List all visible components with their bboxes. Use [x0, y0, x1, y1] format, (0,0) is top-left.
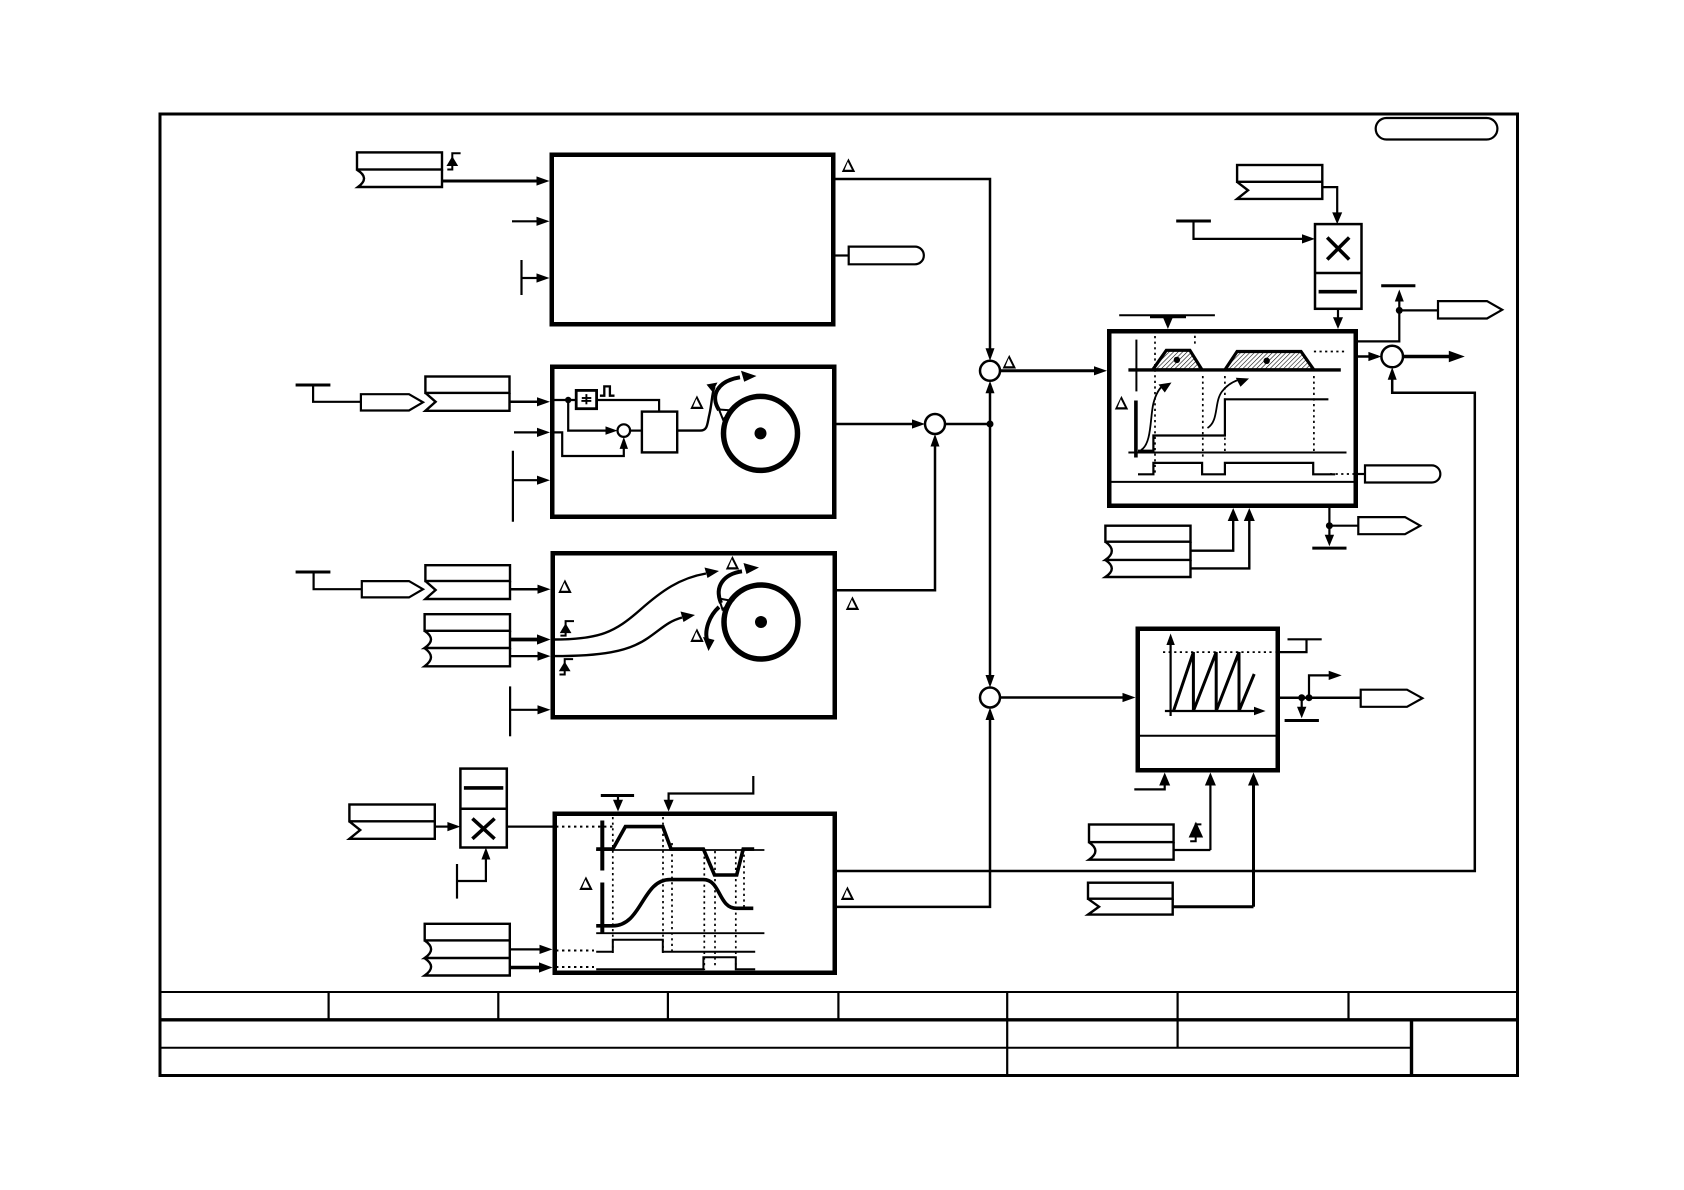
block2 wire invert-to-ramp	[596, 400, 659, 412]
wire banner B3 to block3 input 1	[510, 588, 539, 591]
block3 S-curve 1	[554, 574, 706, 640]
block2 delta label	[690, 395, 703, 409]
sawtooth x-axis	[1165, 710, 1257, 712]
rising-edge symbol S4	[1190, 824, 1201, 841]
block1 input 3 T-stub	[520, 260, 522, 295]
title block row line top	[160, 991, 1517, 993]
block3 output wire to summing node B	[837, 446, 935, 590]
wire node to output flag F2	[1329, 525, 1358, 527]
block2 input1 internal wire	[555, 399, 577, 401]
block2 output wire to summing node B	[837, 423, 914, 426]
block2 pulse symbol	[600, 386, 615, 395]
blockR1 staircase	[1138, 399, 1328, 450]
block4 top input 2 wire	[669, 776, 754, 801]
summer D output arrow	[1403, 355, 1450, 359]
wire banner B5 to multiplier	[435, 825, 449, 827]
connector banner B9	[1088, 883, 1173, 915]
T-terminal T5 (block4 top input 1)	[601, 794, 634, 797]
T-terminal T1 (block2 input 1 source)	[296, 384, 331, 387]
function block 1	[552, 155, 834, 325]
block1 output wire to summing node A	[836, 179, 991, 349]
block2 rotation arc	[715, 377, 740, 410]
block3 delta label input1	[558, 579, 571, 593]
blockR1 delta label	[1115, 396, 1128, 410]
block3 output delta label	[846, 596, 859, 610]
test pill P2	[1358, 473, 1365, 475]
summing circle C	[980, 688, 1000, 708]
block3 delta label bottom	[690, 628, 703, 642]
node dot	[987, 421, 994, 428]
connector banner B6 (block4 lower inputs)	[425, 924, 510, 976]
connector banner B3 (block3 input 1)	[425, 565, 510, 599]
wire node down to summer C	[989, 424, 992, 684]
wire B10 row2 into blockR1	[1191, 513, 1234, 551]
blockR1 curved arrow 1	[1141, 385, 1164, 450]
block1 output delta label	[842, 158, 855, 172]
block2 summer-to-ramp wire	[630, 430, 642, 432]
title block verticals rows2-3	[1007, 1020, 1177, 1075]
wire banner B9 to riser (bold)	[1173, 905, 1254, 908]
block2 input 2 wire	[514, 431, 538, 433]
block3 open triangle	[719, 599, 733, 610]
function block 2	[552, 367, 834, 517]
grounded terminal below node	[1328, 526, 1330, 537]
branch arrow up-right	[1309, 675, 1330, 697]
summing circle B	[925, 414, 945, 434]
block2 wire node to summer	[568, 400, 610, 431]
block2 input2 internal wire	[552, 432, 624, 456]
T-terminal T3 (top multiplier left input)	[1176, 220, 1211, 223]
block2 ramp output wire with S-bend	[677, 387, 714, 431]
connector banner B4 (block3 inputs 2-3)	[425, 614, 510, 666]
sawtooth bottom input 1 L-stub	[1134, 778, 1164, 789]
blockR1 output wire to summer D	[1358, 355, 1378, 358]
wire banner B4 row3 to block3 input 3	[510, 655, 539, 657]
function block R1 (setpoint limiter display)	[1109, 331, 1356, 506]
page label stadium	[1376, 118, 1498, 140]
blockR1 digital trace	[1138, 463, 1335, 474]
block4 dotted leader top	[556, 826, 613, 828]
connector banner B7 (scaling input)	[1237, 165, 1322, 199]
sawtooth y-axis	[1169, 640, 1171, 716]
rising-edge symbol S1	[447, 153, 460, 169]
block2 sign-invert box	[576, 390, 596, 408]
sawtooth upper limit step input	[1280, 639, 1322, 652]
title block verticals row1	[329, 992, 1349, 1020]
wire banner B2 to block2 input 1	[510, 401, 539, 404]
sawtooth output wire to flag F3	[1280, 696, 1361, 699]
pentagon flag G1	[361, 394, 423, 410]
block4 output delta label	[841, 886, 854, 900]
connector banner B2 (block2 input 1)	[425, 377, 509, 411]
summing circle D	[1381, 346, 1403, 368]
connector banner B5 (multiplier input)	[349, 805, 434, 839]
wire banner B7 to top multiplier	[1322, 187, 1337, 218]
block2 ramp rectangle	[642, 412, 677, 453]
sawtooth waveform	[1174, 652, 1255, 711]
block4 digital trace 1	[596, 940, 755, 952]
output flag F2	[1358, 517, 1420, 534]
pentagon flag G2	[362, 581, 423, 597]
wire banner B6 row2 to block4	[510, 948, 541, 950]
sawtooth bottom input 3 riser (bold)	[1252, 778, 1255, 907]
connector banner B1 (input to block 1)	[357, 152, 442, 187]
wire node down into right block	[1358, 310, 1399, 341]
block2 summing circle	[618, 424, 631, 437]
block2 motor circle	[724, 396, 798, 470]
block3 motor circle	[724, 585, 798, 659]
block3 S-curve 2	[554, 618, 682, 657]
title block row line bottom	[160, 1047, 1412, 1049]
blockR1 hatched trapezoid 1	[1153, 350, 1203, 370]
block4 dotted leaders lower	[556, 950, 594, 952]
sawtooth bottom input 2 riser	[1209, 778, 1211, 850]
output flag F3	[1361, 690, 1423, 707]
test pill P1	[836, 254, 849, 256]
wire summer B to node	[945, 423, 990, 426]
block4 lower output wire to summer C	[837, 712, 990, 907]
block3 input 4 T-stub	[509, 686, 511, 736]
multiplier output wire into block4	[507, 825, 553, 827]
block3 rising-edge symbol lower	[560, 659, 574, 674]
wire banner B8 to riser	[1174, 849, 1211, 851]
block3 rotation arc up	[719, 571, 742, 603]
block4 trapezoid waveform (bold)	[596, 827, 754, 875]
block4 delta label	[579, 876, 592, 890]
block3 delta label top	[726, 556, 739, 570]
multiplier-divider block (top right)	[1315, 224, 1362, 309]
block4 S-ramp waveform (bold)	[596, 880, 753, 926]
blockR1 lower axis	[1128, 452, 1346, 454]
connector banner B8	[1089, 825, 1174, 860]
block3 rising-edge symbol upper	[560, 621, 574, 636]
wire banner B1 to block1 input 1	[442, 180, 538, 183]
block4 thin baseline lower	[596, 932, 764, 934]
node dot at output tap	[1396, 307, 1403, 314]
sawtooth dotted level	[1163, 651, 1275, 653]
wire banner B6 row3 to block4 (bold)	[510, 966, 541, 970]
title block merged cell divider	[1410, 1020, 1413, 1075]
blockR1 dotted verticals	[1155, 336, 1314, 474]
T-terminal T4 (right block top input)	[1119, 314, 1215, 316]
blockR1 dotted leader to pill	[1330, 473, 1357, 475]
blockR1 bottom output node	[1328, 508, 1330, 526]
block1 input 2 wire	[512, 220, 538, 222]
block4 upper output feedback wire to summer D	[837, 372, 1475, 871]
blockR1 curved arrow 2	[1208, 380, 1240, 429]
multiplier output wire down into right block	[1337, 309, 1339, 319]
blockR1 baseline bold	[1128, 368, 1340, 371]
block4 digital trace 2	[596, 957, 755, 969]
connector banner B10 (blockR1 bottom inputs)	[1105, 526, 1190, 577]
block4 thin baseline upper	[596, 849, 764, 851]
wire B10 row3 into blockR1	[1191, 513, 1250, 568]
multiplier lower T-stub	[456, 864, 458, 899]
grounded terminal below output	[1301, 698, 1303, 709]
output flag F1	[1438, 301, 1502, 318]
wire summer C to sawtooth block	[1000, 696, 1123, 699]
wire node up to summer A	[989, 392, 992, 424]
T-terminal T2 (block3 input 1 source)	[296, 571, 331, 574]
block3 rotation arc down	[706, 607, 719, 640]
function block 4 (ramp generator)	[555, 814, 835, 973]
block4 dashed axis	[600, 821, 604, 937]
wire summer A to right block	[1000, 369, 1095, 372]
function block 3	[553, 553, 835, 717]
wire banner B4 row2 to block3 input 2 (bold)	[510, 638, 539, 642]
blockR1 axis vertical	[1135, 340, 1137, 392]
blockR1 dotted top right	[1314, 351, 1345, 353]
summer A delta label	[1003, 355, 1016, 369]
divider-multiplier block (bottom-left)	[460, 769, 506, 848]
wire node to output flag F1	[1399, 309, 1438, 311]
blockR1 hatched trapezoid 2	[1225, 352, 1314, 370]
block2 input 3 T-stub	[512, 451, 514, 522]
summing circle A	[980, 361, 1000, 381]
title block bold separator	[160, 1018, 1517, 1021]
T-terminal above output node	[1381, 284, 1415, 287]
function block R2 (sawtooth)	[1138, 629, 1278, 771]
block2 node dot	[565, 397, 571, 403]
block4 dotted verticals	[613, 817, 744, 970]
